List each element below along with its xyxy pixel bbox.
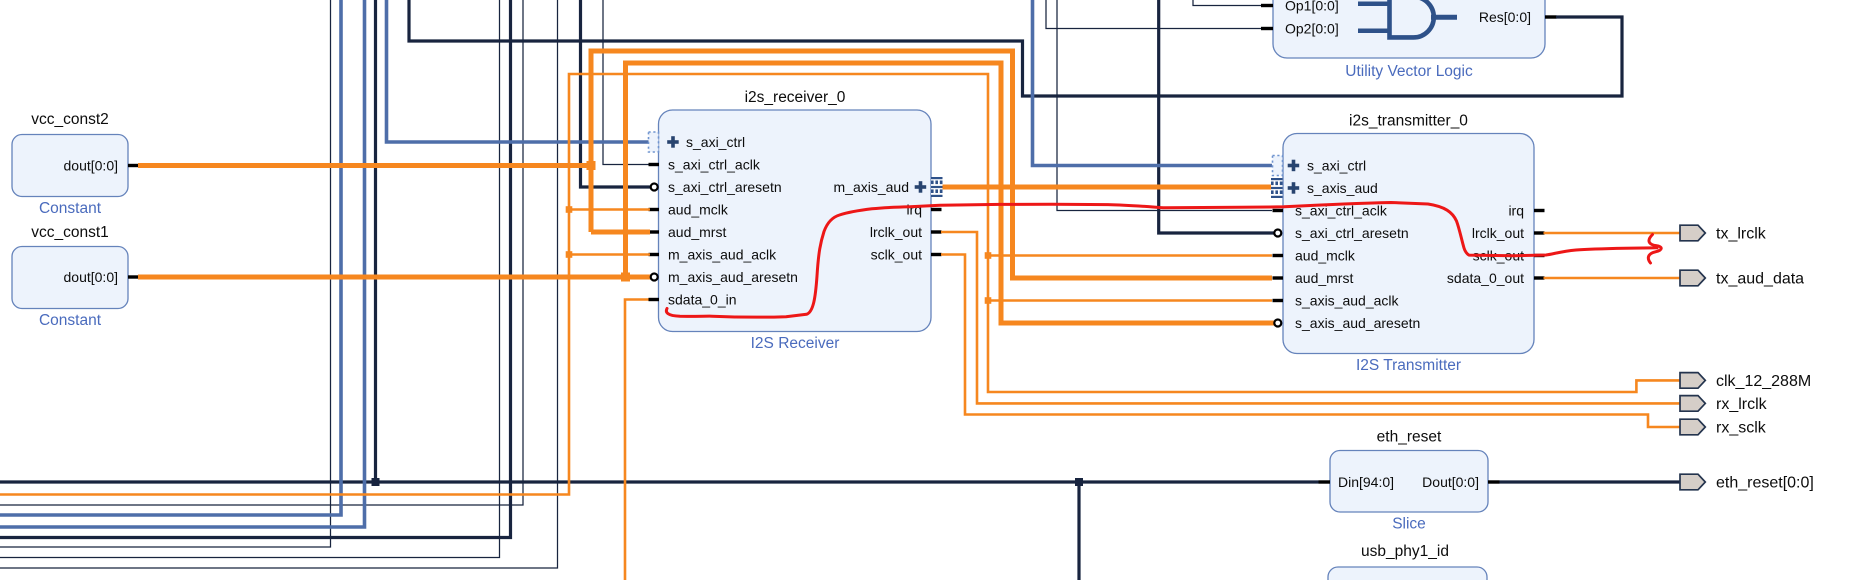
svg-text:I2S Transmitter: I2S Transmitter [1356, 357, 1461, 374]
block eth_reset (Slice) [1330, 429, 1488, 533]
svg-text:aud_mclk: aud_mclk [1295, 248, 1356, 264]
svg-text:Dout[0:0]: Dout[0:0] [1422, 474, 1479, 490]
pin stubs receiver right [931, 208, 942, 211]
svg-text:dout[0:0]: dout[0:0] [64, 158, 119, 174]
wire eth_reset Din net [0, 480, 1319, 483]
pin stubs transmitter right [1534, 209, 1545, 212]
block usb_phy1_id (clipped at bottom) [1328, 543, 1487, 580]
wire receiver aud_mrst branch [591, 230, 650, 235]
svg-text:s_axi_ctrl: s_axi_ctrl [1307, 158, 1366, 174]
wire mclk branch transmitter aud_mclk [988, 254, 1272, 257]
svg-text:aud_mclk: aud_mclk [668, 202, 729, 218]
svg-text:aud_mrst: aud_mrst [1295, 270, 1353, 286]
junction mclk at transmitter aud_mclk [985, 252, 992, 259]
inverter circle transmitter s_axi_ctrl_aresetn [1274, 230, 1281, 237]
junction mclk at receiver m_axis_aud_aclk [566, 251, 573, 258]
block util_vector_logic (Utility Vector Logic, clipped at top) [1273, 0, 1545, 80]
svg-text:m_axis_aud: m_axis_aud [834, 179, 910, 195]
wire transmitter lrclk_out to tx_lrclk [1544, 232, 1681, 235]
wire vcc_const2 riser and top run to transmitter aud_mrst [591, 51, 1272, 278]
svg-text:lrclk_out: lrclk_out [1472, 225, 1524, 241]
port tx_lrclk [1680, 225, 1767, 242]
block vcc_const2 (Constant) [12, 111, 128, 217]
port rx_sclk [1680, 419, 1767, 436]
wire receiver s_axi_ctrl_aresetn [581, 0, 651, 187]
wire eth_reset Din branch up [374, 0, 377, 482]
svg-text:s_axi_ctrl_aresetn: s_axi_ctrl_aresetn [668, 179, 782, 195]
wire receiver s_axi_ctrl_aclk [603, 0, 649, 165]
svg-text:irq: irq [1508, 203, 1524, 219]
pin stubs slice [1319, 480, 1331, 483]
svg-text:vcc_const2: vcc_const2 [31, 111, 109, 128]
wire receiver sclk_out to rx_sclk [941, 255, 1680, 428]
svg-text:Din[94:0]: Din[94:0] [1338, 474, 1394, 490]
junction eth_reset net left [372, 478, 380, 486]
wire blue net 2 (left) [0, 0, 365, 527]
interface connector receiver s_axi_ctrl (dashed) [649, 132, 659, 152]
svg-text:Constant: Constant [39, 200, 102, 217]
svg-text:eth_reset: eth_reset [1377, 429, 1442, 446]
pin stub vcc_const1 dout[0:0] [128, 275, 139, 278]
block i2s_transmitter_0 (I2S Transmitter) [1283, 113, 1534, 375]
svg-text:eth_reset[0:0]: eth_reset[0:0] [1716, 475, 1814, 492]
plus icon s_axi_ctrl (receiver) [667, 136, 679, 148]
pin stub vcc_const2 dout[0:0] [128, 164, 139, 167]
svg-text:m_axis_aud_aresetn: m_axis_aud_aresetn [668, 269, 798, 285]
wire receiver lrclk_out to rx_lrclk [941, 232, 1680, 403]
svg-text:s_axi_ctrl_aresetn: s_axi_ctrl_aresetn [1295, 225, 1409, 241]
wire vcc_const2 dout horizontal [138, 163, 591, 168]
wire vcc_const1 riser and top run to transmitter s_axis_aud_aresetn [626, 63, 1275, 323]
interface connector transmitter s_axi_ctrl (dashed) [1273, 156, 1283, 176]
pin stubs utility [1261, 4, 1273, 7]
plus icon s_axis_aud (transmitter) [1288, 182, 1300, 194]
svg-text:s_axis_aud_aclk: s_axis_aud_aclk [1295, 293, 1400, 309]
svg-text:usb_phy1_id: usb_phy1_id [1361, 543, 1449, 560]
junction vcc_const1 net [621, 273, 630, 282]
wire transmitter s_axi_ctrl_aclk [1057, 0, 1272, 211]
svg-text:tx_aud_data: tx_aud_data [1716, 271, 1804, 288]
junction mclk at transmitter s_axis_aud_aclk [985, 297, 992, 304]
wire navy thin net C (left bus 3) [0, 0, 500, 558]
svg-text:rx_sclk: rx_sclk [1716, 420, 1767, 437]
svg-text:sdata_0_out: sdata_0_out [1447, 270, 1524, 286]
svg-text:I2S Receiver: I2S Receiver [751, 335, 840, 352]
wire blue net 1 (left) [0, 0, 341, 515]
svg-text:irq: irq [906, 202, 922, 218]
svg-text:rx_lrclk: rx_lrclk [1716, 396, 1768, 413]
svg-text:vcc_const1: vcc_const1 [31, 224, 109, 241]
svg-text:s_axis_aud: s_axis_aud [1307, 180, 1378, 196]
inverter circle transmitter s_axis_aud_aresetn [1274, 320, 1281, 327]
svg-text:m_axis_aud_aclk: m_axis_aud_aclk [668, 247, 777, 263]
wire mclk branch receiver aud_mclk [569, 208, 650, 211]
svg-text:Op2[0:0]: Op2[0:0] [1285, 21, 1339, 37]
plus icon s_axi_ctrl (transmitter) [1288, 160, 1300, 172]
svg-text:aud_mrst: aud_mrst [668, 224, 726, 240]
svg-text:dout[0:0]: dout[0:0] [64, 269, 119, 285]
junction mclk at receiver aud_mclk [566, 206, 573, 213]
block i2s_receiver_0 (I2S Receiver) [659, 89, 932, 352]
wire Op2 [1046, 0, 1261, 29]
svg-text:s_axi_ctrl_aclk: s_axi_ctrl_aclk [668, 157, 761, 173]
plus icon m_axis_aud (receiver) [915, 181, 927, 193]
svg-text:s_axi_ctrl: s_axi_ctrl [686, 134, 745, 150]
svg-text:s_axis_aud_aresetn: s_axis_aud_aresetn [1295, 315, 1420, 331]
junction eth_reset net right [1075, 478, 1083, 486]
wire navy thin net A (left bus 1) [0, 0, 523, 505]
svg-text:lrclk_out: lrclk_out [870, 224, 922, 240]
svg-text:Op1[0:0]: Op1[0:0] [1285, 0, 1339, 14]
wire navy thin net D (left bus 4) [0, 0, 558, 568]
junction vcc_const2 net [587, 161, 596, 170]
svg-text:Res[0:0]: Res[0:0] [1479, 9, 1531, 25]
inverter circle receiver s_axi_ctrl_aresetn [651, 184, 658, 191]
svg-text:Utility Vector Logic: Utility Vector Logic [1345, 63, 1473, 80]
wire navy thin net B (left bus 2) [0, 0, 331, 547]
wire sdata_0_in drop [625, 300, 649, 580]
port clk_12_288M [1680, 373, 1811, 390]
AND gate icon U1 [1358, 0, 1457, 37]
interface connector transmitter s_axis_aud (hatched) [1271, 178, 1283, 198]
wire Res net (utility output loop) [409, 0, 1622, 96]
wire Op1 [1193, 0, 1261, 6]
svg-text:i2s_receiver_0: i2s_receiver_0 [745, 89, 846, 106]
wire transmitter sdata_0_out to tx_aud_data [1544, 277, 1681, 280]
port eth_reset[0:0] [1680, 474, 1814, 491]
pin stubs transmitter left [1273, 209, 1284, 212]
wire navy thick left bottom [0, 0, 511, 538]
pin stubs receiver left [649, 163, 660, 166]
port rx_lrclk [1680, 396, 1768, 413]
wire transmitter s_axi_ctrl_aresetn [1159, 0, 1275, 233]
wire receiver s_axi_ctrl bus [387, 0, 649, 142]
wire eth_reset Dout to port [1500, 480, 1681, 483]
wire mclk branch transmitter s_axis_aud_aclk [988, 299, 1272, 302]
wire mclk branch receiver m_axis_aud_aclk [569, 253, 650, 256]
svg-text:sclk_out: sclk_out [871, 247, 922, 263]
wire eth_reset Din branch down [1077, 482, 1080, 580]
inverter circle receiver m_axis_aud_aresetn [651, 274, 658, 281]
svg-text:sdata_0_in: sdata_0_in [668, 292, 737, 308]
svg-text:clk_12_288M: clk_12_288M [1716, 373, 1811, 390]
svg-text:Slice: Slice [1392, 516, 1426, 533]
wire transmitter s_axi_ctrl bus [1033, 0, 1273, 166]
wire mclk net main run [0, 74, 1680, 495]
wire m_axis_aud AXIS bus [943, 185, 1272, 190]
block vcc_const1 (Constant) [12, 224, 128, 329]
red annotation main stroke [666, 203, 1657, 318]
wire vcc_const1 dout to receiver m_axis_aud_aresetn [138, 275, 651, 280]
svg-text:tx_lrclk: tx_lrclk [1716, 226, 1767, 243]
svg-text:i2s_transmitter_0: i2s_transmitter_0 [1349, 113, 1468, 130]
red annotation arrowhead squiggle [1648, 235, 1661, 264]
interface connector receiver m_axis_aud (hatched) [931, 177, 943, 197]
port tx_aud_data [1680, 270, 1804, 287]
svg-text:Constant: Constant [39, 312, 102, 329]
